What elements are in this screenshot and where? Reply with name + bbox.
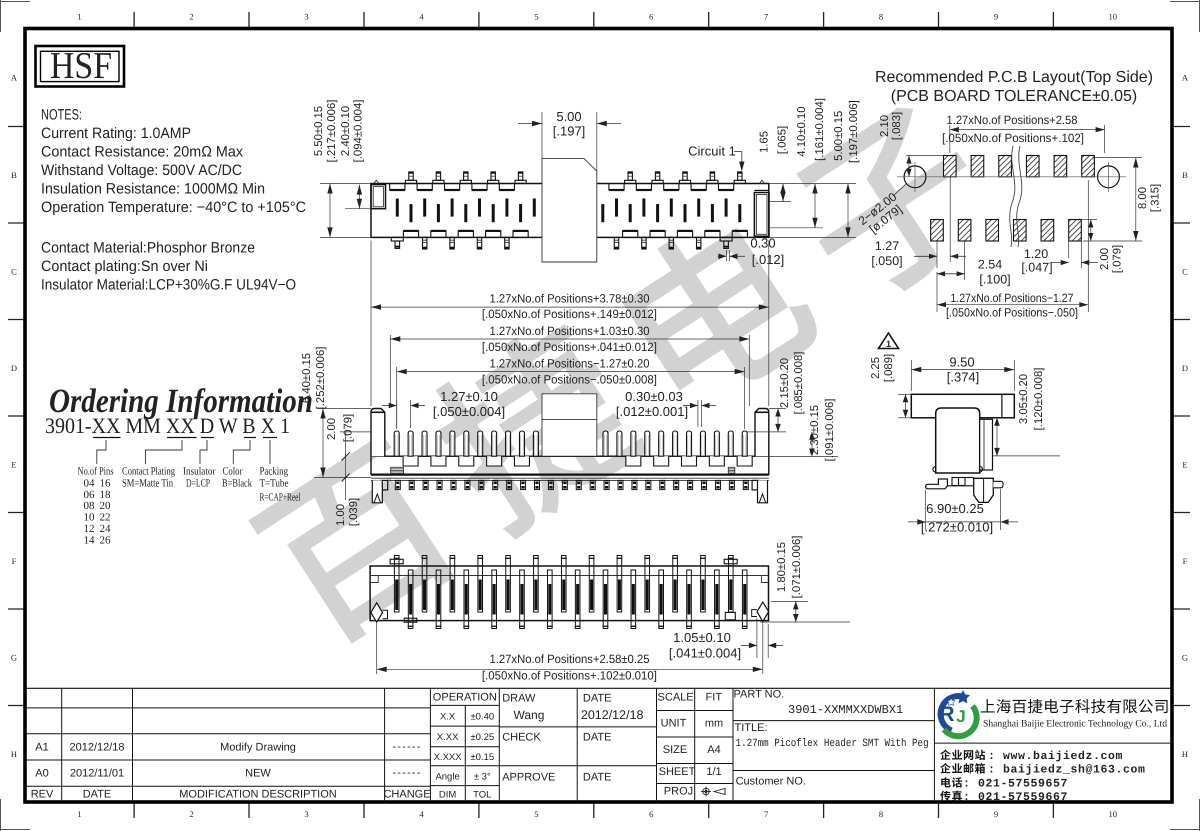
svg-text:24: 24	[100, 523, 112, 535]
svg-text:[.197±0.006]: [.197±0.006]	[848, 100, 860, 163]
top view break band	[542, 159, 597, 262]
svg-text:H: H	[1182, 749, 1188, 759]
svg-text:±0.40: ±0.40	[470, 711, 494, 722]
svg-text:1.27xNo.of Positions−1.27±0.2: 1.27xNo.of Positions−1.27±0.20	[490, 357, 650, 371]
bottom view corner steps	[370, 576, 378, 583]
svg-text:Contact Material:Phosphor Br: Contact Material:Phosphor Bronze	[41, 240, 255, 257]
svg-text:± 3°: ± 3°	[474, 772, 491, 783]
top view datum triangles	[374, 180, 379, 183]
svg-text:C: C	[1182, 266, 1188, 276]
side view side bumps	[933, 467, 936, 473]
svg-text:(PCB BOARD TOLERANCE±0.05): (PCB BOARD TOLERANCE±0.05)	[891, 88, 1137, 105]
svg-text:[.065]: [.065]	[776, 126, 788, 154]
svg-text:SHEET: SHEET	[659, 766, 696, 778]
svg-text:1: 1	[886, 339, 891, 349]
top view top edge notches	[390, 184, 405, 191]
svg-text:TITLE:: TITLE:	[735, 722, 768, 734]
svg-text:D: D	[1182, 363, 1188, 373]
svg-text:Color: Color	[223, 466, 243, 478]
svg-text:G: G	[11, 652, 17, 662]
svg-text:16: 16	[100, 477, 112, 489]
dim 5.50 left	[320, 183, 371, 185]
bottom view right diamond peg	[757, 602, 769, 621]
svg-text:[.012±0.001]: [.012±0.001]	[616, 404, 688, 419]
svg-text:[.079]: [.079]	[1112, 245, 1124, 273]
svg-text:Packing: Packing	[260, 466, 289, 478]
svg-text:H: H	[11, 749, 17, 759]
svg-text:G: G	[1182, 652, 1188, 662]
front view base body	[371, 456, 769, 474]
svg-text:SIZE: SIZE	[663, 744, 687, 756]
svg-text:R: R	[939, 703, 954, 726]
svg-text:Circuit 1: Circuit 1	[688, 144, 736, 159]
svg-text:F: F	[12, 556, 17, 566]
svg-text:A1: A1	[35, 742, 48, 754]
svg-text:6: 6	[649, 12, 653, 22]
svg-text:3: 3	[304, 12, 308, 22]
front view hatched contact right	[728, 467, 735, 473]
front view left peg bottom	[372, 480, 382, 502]
svg-text:[.012]: [.012]	[752, 252, 785, 267]
dim 1.05	[756, 618, 758, 658]
svg-text:No.of Pins: No.of Pins	[78, 466, 114, 478]
pcb dim +2.58	[949, 125, 951, 153]
svg-text:20: 20	[100, 500, 112, 512]
svg-text:Customer NO.: Customer NO.	[736, 776, 806, 788]
dim 1.27xN+3.78	[370, 241, 372, 407]
svg-text:9: 9	[994, 12, 998, 22]
bottom view small tab left of right peg	[752, 610, 757, 617]
side view right latch tab	[980, 419, 993, 470]
svg-text:A4: A4	[707, 744, 720, 756]
svg-text:Insulation Resistance: 1000M: Insulation Resistance: 1000MΩ Min	[41, 181, 265, 198]
svg-text:7: 7	[764, 809, 768, 819]
svg-text:DRAW: DRAW	[502, 693, 536, 705]
svg-text:06: 06	[84, 489, 96, 501]
svg-text:[.050xNo.of Positions−.050]: [.050xNo.of Positions−.050]	[946, 306, 1078, 320]
watermark 百捷电子	[248, 434, 469, 655]
svg-text:4: 4	[419, 809, 424, 819]
svg-text:[.050xNo.of Positions−.050±0.: [.050xNo.of Positions−.050±0.008]	[482, 373, 657, 387]
svg-text:5.00: 5.00	[556, 109, 581, 124]
pcb hole callout	[856, 189, 908, 238]
svg-text:[.315]: [.315]	[1150, 184, 1162, 212]
svg-text:08: 08	[84, 500, 96, 512]
svg-text:PART NO.: PART NO.	[734, 689, 785, 701]
bottom view body	[370, 566, 768, 621]
dim 5.00 right	[769, 236, 856, 238]
svg-text:A: A	[11, 73, 18, 83]
svg-text:2.15±0.20: 2.15±0.20	[779, 358, 791, 408]
dim 2.15 right	[769, 408, 786, 410]
svg-text:1.27mm Picoflex Header SMT Wit: 1.27mm Picoflex Header SMT With Peg	[736, 738, 929, 750]
dim 2.00 / 1.00 left ticks	[340, 431, 371, 433]
front view base notches	[403, 456, 418, 466]
svg-text:TOL: TOL	[473, 790, 491, 801]
svg-text:PROJ.: PROJ.	[664, 786, 696, 798]
svg-text:0.30±0.03: 0.30±0.03	[625, 389, 683, 404]
dim 6.40 left	[318, 408, 371, 410]
side view contact sections	[952, 478, 959, 486]
svg-text:[.094±0.004]: [.094±0.004]	[353, 100, 365, 163]
svg-text:B=Black: B=Black	[222, 478, 252, 490]
svg-text:[.120±0.008]: [.120±0.008]	[1033, 368, 1045, 431]
svg-text:3901-XXMMXXDWBX1: 3901-XXMMXXDWBX1	[788, 703, 903, 717]
svg-text:7: 7	[764, 12, 768, 22]
svg-text:A: A	[1182, 73, 1189, 83]
svg-text:22: 22	[100, 512, 111, 524]
svg-text:X.XX: X.XX	[437, 732, 459, 743]
svg-text:±0.25: ±0.25	[470, 732, 494, 743]
svg-text:[.050xNo.of Positions+.149±0.: [.050xNo.of Positions+.149±0.012]	[482, 307, 657, 321]
dim 3.05	[993, 455, 1061, 457]
svg-text:A0: A0	[35, 768, 48, 780]
svg-text:2.00: 2.00	[326, 418, 338, 440]
svg-text:Current Rating: 1.0AMP: Current Rating: 1.0AMP	[41, 125, 191, 142]
svg-text:8.00: 8.00	[1137, 187, 1149, 209]
svg-text:2.40±0.10: 2.40±0.10	[340, 106, 352, 156]
page corner marks	[0, 1, 30, 3]
svg-text:X.XXX: X.XXX	[434, 752, 463, 763]
top view bottom edge notches	[403, 231, 418, 238]
front view left peg (latch)	[371, 409, 385, 457]
svg-text:[.374]: [.374]	[947, 370, 980, 385]
pcb dim -1.27	[936, 272, 938, 312]
svg-text:2012/12/18: 2012/12/18	[581, 708, 644, 722]
ruler ticks and labels	[133, 12, 135, 29]
svg-text:1: 1	[77, 12, 81, 22]
svg-text:[.050xNo.of Positions+.102]: [.050xNo.of Positions+.102]	[942, 131, 1084, 145]
svg-text:5: 5	[534, 12, 538, 22]
svg-text:6: 6	[649, 809, 653, 819]
svg-text:[.272±0.010]: [.272±0.010]	[921, 520, 993, 535]
svg-text:[.083]: [.083]	[891, 112, 903, 140]
svg-text:3901-XX MM XX D W B X 1: 3901-XX MM XX D W B X 1	[45, 413, 290, 438]
svg-text:APPROVE: APPROVE	[502, 772, 555, 784]
svg-text:F: F	[1183, 556, 1188, 566]
bottom view left diamond peg	[371, 603, 383, 622]
svg-text:3: 3	[304, 809, 308, 819]
svg-text:1.27xNo.of Positions+2.58: 1.27xNo.of Positions+2.58	[947, 113, 1078, 127]
bottom view pins	[394, 556, 399, 613]
top view right end cap	[754, 193, 769, 237]
contact lines	[940, 750, 985, 760]
svg-text:5.50±0.15: 5.50±0.15	[313, 106, 325, 156]
svg-text:[.085±0.008]: [.085±0.008]	[793, 352, 805, 415]
svg-text:04: 04	[84, 477, 96, 489]
svg-text:[.091±0.006]: [.091±0.006]	[824, 399, 836, 462]
dim 1.80	[771, 600, 808, 602]
svg-text:4: 4	[419, 12, 424, 22]
pcb dim 1.20	[1068, 241, 1070, 258]
svg-text:MODIFICATION DESCRIPTION: MODIFICATION DESCRIPTION	[179, 789, 337, 801]
svg-text:[.039]: [.039]	[348, 498, 360, 526]
svg-text:1/1: 1/1	[706, 766, 721, 778]
svg-text:: baijiedz_sh@163.com: : baijiedz_sh@163.com	[988, 764, 1146, 777]
svg-text:B: B	[1182, 170, 1188, 180]
pcb bottom pads	[931, 220, 944, 242]
dim 1.27xN+1.03	[389, 335, 391, 406]
svg-text:[.071±0.006]: [.071±0.006]	[791, 536, 803, 599]
svg-text:: 021-57559657: : 021-57559657	[963, 778, 1068, 791]
svg-text:1.00: 1.00	[335, 504, 347, 526]
svg-text:SM=Matte Tin: SM=Matte Tin	[122, 478, 173, 490]
svg-text:18: 18	[100, 489, 112, 501]
svg-text:NEW: NEW	[245, 768, 271, 780]
svg-text:FIT: FIT	[706, 692, 723, 704]
svg-text:2.25: 2.25	[870, 357, 882, 379]
dim 0.30 pin width	[725, 250, 727, 261]
top view top pins	[405, 180, 416, 183]
svg-text:9: 9	[994, 809, 998, 819]
svg-text:Contact plating:Sn over Ni: Contact plating:Sn over Ni	[41, 258, 208, 275]
svg-text:1.27xNo.of Positions+2.58±0.2: 1.27xNo.of Positions+2.58±0.25	[490, 652, 650, 666]
svg-text:2.10: 2.10	[879, 115, 891, 137]
svg-text:------: ------	[392, 767, 421, 779]
svg-text:1.27: 1.27	[875, 239, 899, 253]
svg-text:Contact Plating: Contact Plating	[122, 466, 175, 478]
svg-text:1.20: 1.20	[1024, 247, 1048, 261]
svg-text:10: 10	[1108, 809, 1117, 819]
company name cn	[981, 699, 1168, 713]
svg-text:[.050±0.004]: [.050±0.004]	[433, 404, 505, 419]
pcb dim 2.10	[906, 155, 943, 157]
svg-text:------: ------	[392, 741, 421, 753]
svg-text:Insulator: Insulator	[183, 466, 216, 478]
svg-text:SCALE: SCALE	[658, 692, 694, 704]
svg-text:5: 5	[534, 809, 538, 819]
HSF logo box	[36, 46, 125, 87]
svg-text:mm: mm	[705, 718, 723, 730]
svg-text:[.079]: [.079]	[343, 414, 355, 442]
svg-text:3.05±0.20: 3.05±0.20	[1018, 374, 1030, 424]
projection symbol	[701, 787, 725, 797]
leader lines to option labels	[97, 440, 106, 464]
svg-text:26: 26	[100, 534, 112, 546]
svg-text:±0.15: ±0.15	[470, 752, 494, 763]
svg-text:8: 8	[879, 809, 883, 819]
svg-text:[.050xNo.of Positions+.102±0.: [.050xNo.of Positions+.102±0.010]	[482, 669, 657, 683]
pcb top pads	[944, 156, 957, 177]
svg-text:[.252±0.006]: [.252±0.006]	[315, 347, 327, 410]
svg-text:Shanghai Baijie Electronic Tec: Shanghai Baijie Electronic Technology Co…	[983, 719, 1167, 730]
bottom view fitting nail bars	[390, 559, 403, 564]
svg-text:B: B	[11, 170, 17, 180]
side view housing body	[936, 408, 980, 473]
svg-text:2012/12/18: 2012/12/18	[69, 742, 124, 754]
svg-text:UNIT: UNIT	[661, 718, 687, 730]
svg-text:[.041±0.004]: [.041±0.004]	[669, 646, 741, 661]
svg-text:[.050xNo.of Positions+.041±0.: [.050xNo.of Positions+.041±0.012]	[482, 340, 657, 354]
svg-text:Recommended P.C.B Layout(Top: Recommended P.C.B Layout(Top Side)	[875, 69, 1153, 86]
front view right peg bottom	[758, 480, 768, 502]
dim 1.27 pin pitch	[396, 400, 398, 428]
pcb break wavy lines	[1010, 146, 1015, 247]
svg-text:DATE: DATE	[83, 789, 112, 801]
svg-text:12: 12	[84, 523, 95, 535]
svg-text:1.27xNo.of Positions+3.78±0.3: 1.27xNo.of Positions+3.78±0.30	[490, 291, 650, 305]
svg-text:[.217±0.006]: [.217±0.006]	[326, 100, 338, 163]
svg-text:2: 2	[189, 809, 193, 819]
svg-text:0.30: 0.30	[750, 236, 775, 251]
svg-text:REV: REV	[31, 789, 54, 801]
svg-text:Operation Temperature: −40°C: Operation Temperature: −40°C to +105°C	[41, 199, 306, 216]
svg-text:[.100]: [.100]	[979, 273, 1010, 287]
svg-text:E: E	[1182, 459, 1187, 469]
svg-text:2.54: 2.54	[978, 258, 1002, 272]
svg-text:8: 8	[879, 12, 883, 22]
svg-text:R=CAP+Reel: R=CAP+Reel	[260, 492, 301, 504]
top view body outline	[371, 184, 769, 238]
top view bottom pins	[391, 237, 403, 241]
side view flange	[911, 394, 1014, 418]
company logo	[939, 690, 976, 736]
svg-text:2: 2	[189, 12, 193, 22]
svg-text:[.161±0.004]: [.161±0.004]	[814, 98, 826, 161]
side view left foot	[926, 479, 948, 489]
svg-text:5.00±0.15: 5.00±0.15	[833, 111, 845, 161]
pcb dim 8.00	[1093, 157, 1142, 159]
dim 1.27xN+2.58	[376, 622, 378, 674]
svg-text:E: E	[11, 459, 16, 469]
svg-text:DATE: DATE	[583, 732, 612, 744]
svg-text:10: 10	[84, 512, 96, 524]
dim 0.30 pin width front	[697, 400, 699, 427]
svg-text:X.X: X.X	[440, 711, 456, 722]
svg-text:D: D	[11, 363, 17, 373]
svg-text:1: 1	[77, 809, 81, 819]
svg-text:[.089]: [.089]	[883, 354, 895, 382]
svg-text:4.10±0.10: 4.10±0.10	[796, 107, 808, 157]
dim 2.40 left cap	[345, 208, 371, 210]
front view left wide tab	[381, 480, 388, 490]
svg-text:10: 10	[1108, 12, 1117, 22]
svg-text:CHANGE: CHANGE	[383, 789, 430, 801]
svg-text:Insulator Material:LCP+30%G.F: Insulator Material:LCP+30%G.F UL94V−O	[41, 277, 296, 294]
svg-text:1.65: 1.65	[759, 131, 771, 153]
svg-text:Contact Resistance: 20mΩ Ma: Contact Resistance: 20mΩ Max	[41, 143, 243, 160]
side view right pin	[993, 481, 1003, 488]
dim 9.50	[910, 360, 912, 391]
svg-text:T=Tube: T=Tube	[260, 478, 289, 490]
svg-text:OPERATION: OPERATION	[433, 692, 497, 704]
svg-text:HSF: HSF	[50, 45, 112, 87]
svg-text:14: 14	[84, 534, 96, 546]
svg-text:: 021-57559667: : 021-57559667	[963, 791, 1068, 804]
dim 2.25	[898, 393, 911, 395]
front view break band	[542, 394, 597, 456]
top view contact bars	[396, 199, 399, 217]
side view warning triangle	[879, 333, 899, 349]
svg-text:1.27xNo.of Positions−1.27: 1.27xNo.of Positions−1.27	[951, 291, 1074, 305]
dim 5.00 break	[541, 112, 543, 159]
svg-text:[.050]: [.050]	[871, 254, 902, 268]
svg-text:CHECK: CHECK	[502, 732, 541, 744]
svg-text:Withstand Voltage: 500V AC/: Withstand Voltage: 500V AC/DC	[41, 162, 242, 179]
top view left end cap	[371, 185, 386, 209]
svg-text:DATE: DATE	[583, 693, 612, 705]
svg-text:J: J	[956, 707, 965, 726]
svg-text:D=LCP: D=LCP	[186, 478, 210, 490]
svg-text:2012/11/01: 2012/11/01	[70, 768, 124, 780]
pcb holes	[904, 166, 926, 188]
dim 1.27xN-1.27	[396, 367, 398, 429]
dim 2.30 right	[769, 456, 838, 458]
dim 4.10 right	[769, 227, 823, 229]
title block grid	[25, 687, 1172, 689]
svg-text:[.197]: [.197]	[553, 124, 586, 139]
front view pins	[394, 431, 399, 456]
svg-text:[.047]: [.047]	[1021, 261, 1052, 275]
front view smt tabs	[395, 480, 400, 489]
underlines under code letters	[93, 437, 121, 439]
svg-text:6.90±0.25: 6.90±0.25	[926, 501, 984, 516]
svg-text:Modify Drawing: Modify Drawing	[220, 742, 296, 754]
svg-text:2.00: 2.00	[1099, 248, 1111, 270]
side view peg	[974, 478, 994, 502]
svg-text:1.05±0.10: 1.05±0.10	[673, 630, 731, 645]
svg-text:6.40±0.15: 6.40±0.15	[301, 353, 313, 403]
svg-text:Angle: Angle	[435, 772, 459, 783]
front view hatched contact left	[391, 467, 404, 473]
svg-text:: www.baijiedz.com: : www.baijiedz.com	[988, 750, 1123, 763]
front view right wide tab	[752, 480, 759, 490]
pcb dim 2.00	[1081, 219, 1097, 221]
svg-text:1.27xNo.of Positions+1.03±0.3: 1.27xNo.of Positions+1.03±0.30	[490, 324, 650, 338]
svg-text:NOTES:: NOTES:	[41, 107, 82, 124]
dim 1.65 right	[769, 183, 856, 185]
svg-text:2.30±0.15: 2.30±0.15	[809, 405, 821, 455]
svg-text:9.50: 9.50	[949, 355, 974, 370]
pcb dim 1.27	[936, 241, 938, 268]
svg-text:DIM: DIM	[439, 790, 457, 801]
svg-text:1.80±0.15: 1.80±0.15	[776, 542, 788, 592]
pcb dim 2.54	[964, 241, 966, 280]
dim 6.90	[924, 490, 926, 530]
svg-text:DATE: DATE	[583, 772, 612, 784]
svg-text:Wang: Wang	[514, 708, 545, 722]
svg-text:C: C	[11, 266, 17, 276]
svg-text:1.27±0.10: 1.27±0.10	[440, 389, 498, 404]
front view right peg (latch)	[755, 409, 769, 457]
